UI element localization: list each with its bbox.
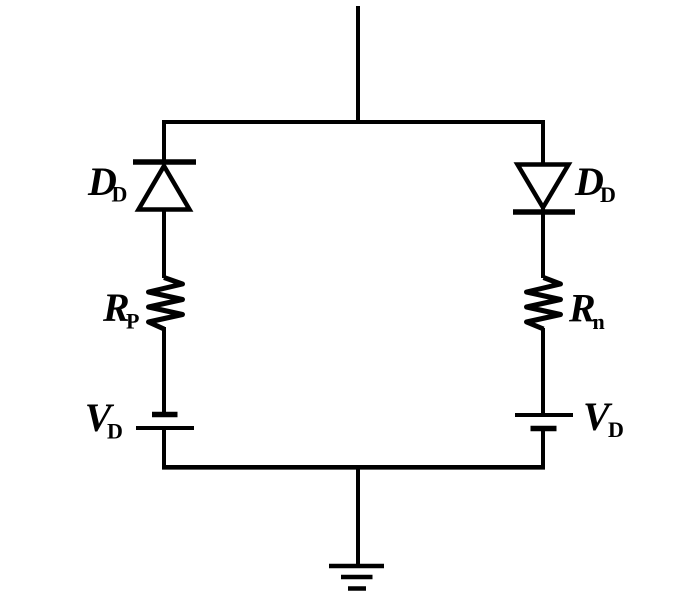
svg-text:D: D	[112, 182, 128, 207]
svg-text:D: D	[600, 182, 616, 207]
svg-text:D: D	[107, 419, 123, 444]
svg-text:n: n	[593, 309, 605, 334]
svg-text:D: D	[608, 417, 624, 442]
svg-text:P: P	[126, 309, 139, 334]
